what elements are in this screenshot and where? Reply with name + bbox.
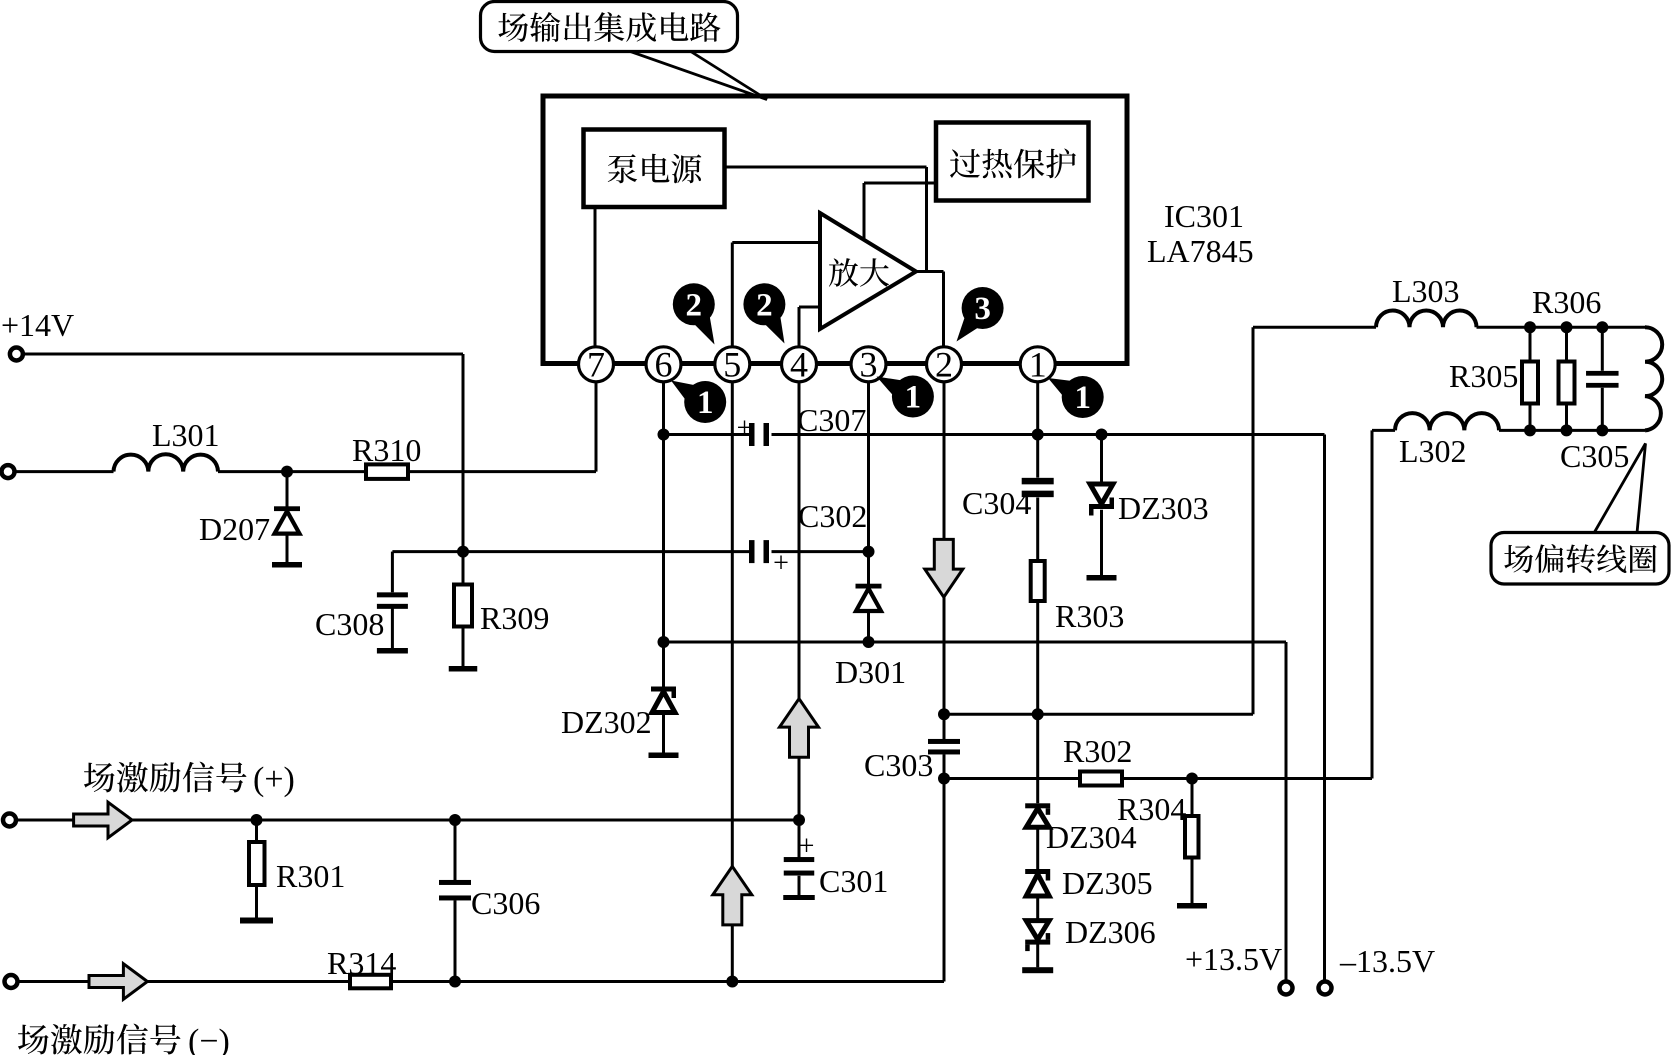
svg-text:4: 4 [790,345,808,385]
pin 2 [927,347,962,382]
resistor R303 [1031,561,1045,601]
wire op-amp output to pin 2 [916,270,944,273]
capacitor C305 [1586,371,1619,376]
svg-text:LA7845: LA7845 [1147,233,1254,269]
wire bottom yoke row: L302 to coil [1372,429,1395,432]
svg-text:R303: R303 [1055,598,1124,634]
resistor R302 [1080,772,1122,786]
svg-text:L302: L302 [1399,433,1467,469]
deflection yoke coil [1645,327,1662,430]
zener DZ303 [1090,484,1113,504]
node pin2/C303 junction [938,708,950,720]
signal arrow up on pin 5 line [713,866,752,925]
wire -13.5V vertical drop [1323,435,1326,982]
capacitor C304 [1022,478,1054,485]
inductor L302 [1395,413,1499,430]
svg-text:C303: C303 [864,747,933,783]
callout 场输出集成电路 [629,51,767,100]
resistor R304 [1185,816,1199,858]
svg-text:+: + [773,548,789,579]
svg-text:R310: R310 [352,432,421,468]
svg-text:1: 1 [1029,345,1047,385]
node pin4/C301 junction [793,814,805,826]
node C306 bottom junction [449,976,461,988]
svg-text:1: 1 [1074,380,1091,416]
svg-text:R305: R305 [1449,358,1518,394]
node pin6/DZ302 junction [658,636,670,648]
op-amp 放大 [820,213,916,329]
wire pin 5 down to excitation(-) row [731,382,734,982]
terminal +13.5V [1280,982,1293,995]
svg-text:+14V: +14V [1,307,74,343]
signal arrow on excitation(+) input [74,802,132,838]
wire pin 4 to op-amp input [799,306,820,309]
wire +13.5V vertical drop [1285,642,1288,981]
resistor R305 [1522,362,1538,404]
label 场激励信号(+) [84,763,115,793]
svg-text:7: 7 [587,345,605,385]
svg-text:DZ303: DZ303 [1118,490,1209,526]
svg-text:IC301: IC301 [1164,198,1244,234]
inductor L301 [114,454,219,471]
wire C305 leads [1601,327,1604,371]
capacitor C308 [377,592,408,597]
diode D207 [274,506,300,511]
wire pin 5 to op-amp input [732,241,820,244]
wire C303 bottom to excitation(-) row [943,755,946,982]
resistor R310 [366,464,408,479]
zener DZ304 [1025,803,1050,808]
terminal L301 input [2,465,15,478]
marker 1 below pin 6 [684,381,726,423]
terminal -13.5V [1319,982,1332,995]
pin 1 [1020,347,1055,382]
marker 3 near pin 2 [962,287,1004,329]
wire pin 4 down to excitation(+) row [798,382,801,820]
svg-text:C304: C304 [962,485,1031,521]
callout 场偏转线圈 [1594,444,1646,534]
wire R305 leads [1529,327,1532,361]
node C308/R309 junction [457,546,469,558]
node L301/D207 junction [281,466,293,478]
svg-text:+: + [737,413,753,444]
node pin1/C307 junction [1032,429,1044,441]
svg-text:R301: R301 [276,858,345,894]
svg-text:C302: C302 [798,498,867,534]
svg-text:2: 2 [935,345,953,385]
zener DZ306 [1026,921,1049,940]
wire pin 2 down to C303 [943,382,946,739]
terminal excitation+ [3,814,16,827]
svg-text:DZ305: DZ305 [1062,865,1153,901]
wire C306 leads [454,820,457,880]
ground bar R304 [1177,903,1207,909]
node C306 top junction [449,814,461,826]
pin 5 [715,347,750,382]
ground bar C301 [783,895,815,900]
terminal excitation- [5,975,18,988]
svg-text:+13.5V: +13.5V [1185,941,1282,977]
node DZ303 junction [1096,429,1108,441]
ground bar DZ306 chain [1022,967,1053,973]
wire pump block to pin 7 [594,206,597,347]
wire DZ302 leads [662,642,665,687]
node R301 junction [251,814,263,826]
wire excitation(-) row [17,980,944,983]
marker 1 below pin 3 [892,376,934,418]
svg-text:R309: R309 [480,600,549,636]
overheat protection block 过热保护 [936,123,1089,201]
svg-text:5: 5 [723,345,741,385]
svg-text:–13.5V: –13.5V [1339,943,1435,979]
wire overheat block to op-amp [864,182,936,185]
svg-text:3: 3 [974,291,991,327]
wire D207 leads [286,472,289,507]
resistor R309 [454,585,472,627]
capacitor C303 [928,739,960,744]
wire pin 1 chain verticals [1036,382,1039,478]
node pin5 bottom junction [726,976,738,988]
svg-text:(−): (−) [188,1023,230,1055]
marker 2 near pin 4 [743,283,785,325]
svg-text:C306: C306 [471,885,540,921]
svg-text:D301: D301 [835,654,906,690]
capacitor C301 [784,857,815,862]
pin 3 [851,347,886,382]
ground bar R309 [449,666,478,672]
wire R301 leads [255,820,258,842]
ground bar C308 [377,648,408,654]
svg-text:R302: R302 [1063,733,1132,769]
signal arrow up on pin 4 line [780,699,819,758]
inductor L303 [1376,311,1477,328]
svg-text:L303: L303 [1392,273,1460,309]
svg-text:C307: C307 [797,402,866,438]
svg-text:DZ302: DZ302 [561,704,652,740]
svg-text:DZ304: DZ304 [1046,819,1137,855]
svg-text:(+): (+) [253,761,295,798]
svg-text:R306: R306 [1532,284,1601,320]
resistor R301 [249,842,265,885]
svg-text:C308: C308 [315,606,384,642]
wire R309 leads [462,552,465,585]
wire C303 top row to L303 riser [944,713,1253,716]
wire pin 6 down to DZ302 node [662,382,665,642]
wire DZ303 branch [1100,435,1103,485]
marker 2 near pin 6/5 [673,283,715,325]
wire R302 row to L302 riser [944,777,1080,780]
svg-text:C301: C301 [819,863,888,899]
resistor R306 [1559,362,1575,404]
diode D301 [856,584,882,589]
wire C302 row: C308 node to D301 node [392,550,751,553]
node yoke top junctions [1524,321,1536,333]
ground bar DZ303 [1087,575,1117,581]
marker 1 below pin 1 [1062,376,1104,418]
node C303 lower junction [938,773,950,785]
ground bar DZ302 [649,753,679,759]
ground bar D207 [272,562,302,568]
pin 4 [782,347,817,382]
wire R306 leads [1565,327,1568,361]
capacitor C302 [749,540,755,563]
ground bar R301 [240,918,273,924]
pin 6 [646,347,681,382]
node yoke bottom junctions [1524,424,1536,436]
capacitor C306 [439,880,471,885]
node C302/D301 junction [863,546,875,558]
zener DZ305 [1025,869,1050,874]
signal arrow down on pin 2 line [925,539,963,597]
svg-text:DZ306: DZ306 [1065,914,1156,950]
svg-text:1: 1 [905,380,922,416]
svg-text:+: + [799,831,815,862]
svg-text:R314: R314 [327,945,396,981]
wire excitation(+) row [16,819,799,822]
wire C301 leads [798,820,801,858]
svg-text:L301: L301 [152,417,220,453]
wire +14V rail to C308/R309 node [24,353,463,356]
zener DZ302 [651,687,676,692]
IC301 block outline [543,96,1127,364]
node pin6/C307 junction [658,429,670,441]
wire pin 3 down through D301 node [867,382,870,585]
svg-text:2: 2 [756,287,773,323]
signal arrow on excitation(-) input [89,964,147,1000]
wire top yoke row: riser to coil [1253,326,1376,329]
terminal +14V [10,348,23,361]
node R302/R304 junction [1186,773,1198,785]
wire C307 row: pin6 node to -13.5V drop [664,433,752,436]
node D301 lower junction [863,636,875,648]
wire R304 leads [1191,779,1194,817]
wire C308 leads [391,552,394,593]
svg-text:D207: D207 [199,511,270,547]
svg-text:3: 3 [860,345,878,385]
capacitor C307 [749,423,755,446]
svg-text:2: 2 [686,287,703,323]
wire pump block to output net [725,166,927,169]
wire 642 row: DZ302 node to +13.5V drop [664,641,1287,644]
node pin1/714 junction [1032,708,1044,720]
pump power block 泵电源 [584,130,725,208]
wire L302 riser vertical [1371,430,1374,778]
svg-text:C305: C305 [1560,438,1629,474]
label 场激励信号(-) [18,1025,49,1055]
wire L301 input row to R310 to pin 7 [15,470,114,473]
svg-text:1: 1 [697,385,714,421]
pin 7 [579,347,614,382]
svg-text:6: 6 [655,345,673,385]
resistor R314 [350,975,391,989]
